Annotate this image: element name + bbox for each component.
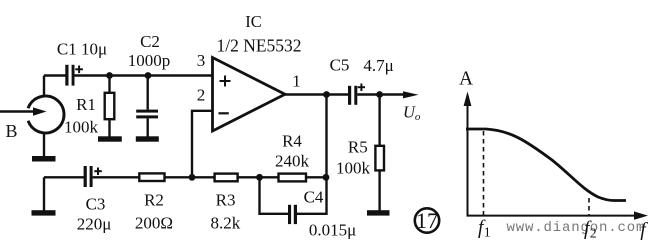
svg-text:B: B bbox=[5, 121, 17, 141]
ground bbox=[367, 210, 390, 215]
minus input mark bbox=[219, 112, 229, 114]
dashed line f2 bbox=[588, 198, 590, 215]
svg-text:100k: 100k bbox=[336, 159, 371, 178]
svg-text:1/2 NE5532: 1/2 NE5532 bbox=[216, 36, 301, 56]
capacitor C1 bbox=[65, 65, 83, 86]
output arrow bbox=[403, 91, 419, 98]
node bbox=[323, 174, 330, 181]
wire bottom rail left bbox=[44, 176, 84, 178]
ground bbox=[32, 156, 56, 162]
ground bbox=[32, 210, 56, 215]
wire output bbox=[285, 93, 348, 95]
capacitor C5 bbox=[348, 84, 365, 105]
wire C4 loop left bbox=[260, 177, 289, 214]
graph x axis bbox=[467, 211, 649, 219]
svg-text:0.015μ: 0.015μ bbox=[309, 221, 356, 240]
svg-text:3: 3 bbox=[197, 51, 206, 70]
wire bbox=[75, 74, 213, 76]
svg-text:100k: 100k bbox=[64, 118, 99, 137]
wire pin2 bbox=[192, 111, 213, 178]
wire output 2 bbox=[357, 93, 405, 95]
svg-text:4.7μ: 4.7μ bbox=[363, 56, 393, 75]
wire bbox=[43, 133, 45, 157]
resistor R2 bbox=[139, 173, 164, 181]
capacitor C4 bbox=[288, 205, 297, 224]
microphone B bbox=[28, 96, 64, 133]
wire C4 loop right bbox=[297, 177, 327, 214]
svg-text:C4: C4 bbox=[304, 188, 324, 207]
node bbox=[106, 72, 113, 79]
plus input mark bbox=[220, 76, 231, 87]
capacitor C3 bbox=[84, 166, 102, 187]
svg-text:1000p: 1000p bbox=[128, 51, 171, 70]
svg-text:200Ω: 200Ω bbox=[135, 214, 173, 233]
capacitor C2 bbox=[136, 76, 158, 138]
ground bbox=[98, 136, 122, 141]
svg-text:R4: R4 bbox=[282, 132, 302, 151]
svg-text:R2: R2 bbox=[144, 191, 164, 210]
ground bbox=[136, 136, 159, 141]
svg-text:C1 10μ: C1 10μ bbox=[57, 40, 107, 59]
wire bbox=[43, 177, 45, 211]
wire bbox=[44, 74, 66, 76]
svg-text:R3: R3 bbox=[216, 191, 236, 210]
node bbox=[145, 72, 152, 79]
resistor R1 bbox=[105, 76, 115, 138]
svg-text:240k: 240k bbox=[275, 152, 310, 171]
wire bottom rail right bbox=[93, 176, 327, 178]
wire feedback bbox=[325, 95, 327, 178]
svg-text:C3: C3 bbox=[86, 195, 106, 214]
figure number 17 bbox=[415, 208, 439, 233]
node bbox=[256, 174, 263, 181]
svg-text:1: 1 bbox=[292, 72, 301, 91]
node bbox=[189, 174, 196, 181]
svg-text:2: 2 bbox=[197, 86, 206, 105]
node bbox=[323, 91, 330, 98]
graph y axis bbox=[464, 92, 472, 217]
op-amp IC bbox=[213, 58, 286, 132]
svg-text:IC: IC bbox=[245, 12, 262, 31]
dashed line f1 bbox=[483, 131, 485, 215]
svg-text:C2: C2 bbox=[140, 32, 160, 51]
svg-text:C5: C5 bbox=[330, 56, 350, 75]
svg-text:17: 17 bbox=[416, 208, 438, 233]
response curve bbox=[466, 129, 626, 201]
resistor R3 bbox=[215, 174, 238, 182]
svg-text:R5: R5 bbox=[348, 138, 368, 157]
svg-text:www.diangon.com: www.diangon.com bbox=[507, 220, 646, 236]
svg-text:A: A bbox=[459, 69, 473, 90]
resistor R5 bbox=[375, 95, 384, 212]
node bbox=[376, 91, 383, 98]
resistor R4 bbox=[279, 174, 307, 182]
wire bbox=[43, 76, 45, 97]
input arrow bbox=[0, 107, 47, 115]
svg-text:R1: R1 bbox=[76, 95, 96, 114]
svg-text:8.2k: 8.2k bbox=[211, 214, 241, 233]
svg-text:220μ: 220μ bbox=[77, 215, 112, 234]
